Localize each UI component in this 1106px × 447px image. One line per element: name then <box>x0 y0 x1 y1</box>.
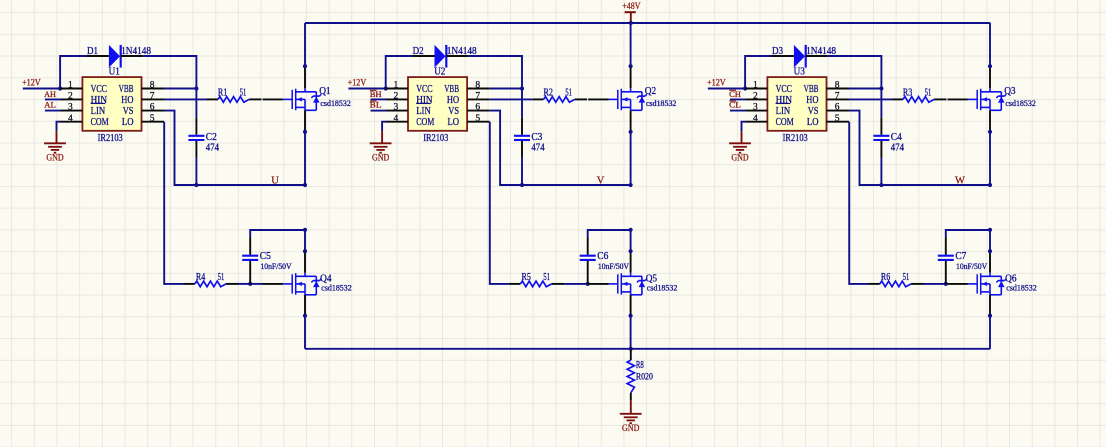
wire LO to low-side resistor <box>164 122 183 284</box>
svg-text:IR2103: IR2103 <box>783 133 808 144</box>
diode D1 cathode pin <box>121 55 143 57</box>
node VBB junction <box>194 86 198 90</box>
svg-text:HO: HO <box>447 95 459 106</box>
pin 7 (right) of U1 <box>142 98 165 100</box>
ground GND (shunt) <box>620 414 642 434</box>
svg-text:10nF/50V: 10nF/50V <box>260 262 291 271</box>
svg-text:LO: LO <box>807 117 819 128</box>
op-amp/driver IC U2 IR2103 <box>408 77 467 131</box>
wire net stub BH <box>371 98 387 100</box>
pin 3 (left) of U2 <box>386 110 408 112</box>
wire Q6 source to bottom rail <box>989 316 991 349</box>
wire cathode to VBB node <box>828 56 882 89</box>
wire up to diode D2 anode <box>386 56 412 89</box>
svg-text:5: 5 <box>150 114 155 124</box>
svg-text:4: 4 <box>394 114 399 124</box>
svg-text:Q3: Q3 <box>1004 86 1015 97</box>
wire gate node to gate pin <box>587 283 589 285</box>
diode D2 cathode pin <box>446 55 468 57</box>
svg-text:R1: R1 <box>218 88 227 99</box>
pin 5 (right) of U2 <box>467 121 490 123</box>
svg-text:R020: R020 <box>636 372 653 382</box>
node +48V junction <box>629 21 633 25</box>
node drain junction Q4 <box>303 249 307 253</box>
capacitor C5 <box>242 256 258 260</box>
svg-text:+12V: +12V <box>348 79 367 89</box>
overline for LIN (active low) <box>776 103 791 105</box>
wire gate node to gate pin <box>250 283 262 285</box>
node phase rail junction <box>988 183 992 187</box>
resistor R6 left pin <box>869 283 880 285</box>
svg-text:8: 8 <box>475 81 480 91</box>
pin 6 (right) of U3 <box>827 110 850 112</box>
node pin1 junction <box>743 86 747 90</box>
svg-text:51: 51 <box>565 88 572 99</box>
svg-text:csd18532: csd18532 <box>1006 284 1036 293</box>
capacitor C6 <box>580 256 596 260</box>
capacitor C4 bottom pin <box>880 141 882 158</box>
Q5 drain pin <box>630 251 632 273</box>
resistor R4 left pin <box>184 283 195 285</box>
overline of net BH <box>370 89 377 91</box>
node source junction Q4 <box>303 314 307 318</box>
svg-text:U1: U1 <box>109 67 120 78</box>
node source junction Q5 <box>629 314 633 318</box>
wire cap to mid rail <box>880 158 882 185</box>
svg-text:csd18532: csd18532 <box>320 99 350 108</box>
wire +12V to pin1 <box>708 88 745 90</box>
svg-text:VCC: VCC <box>776 84 793 95</box>
resistor R8 bottom pin <box>630 393 632 401</box>
pin 5 (right) of U1 <box>142 121 165 123</box>
pin 1 (left) of U3 <box>745 88 767 90</box>
svg-text:GND: GND <box>731 154 748 164</box>
capacitor C7 <box>938 256 954 260</box>
resistor R2 left pin <box>533 98 544 100</box>
resistor R3 left pin <box>892 98 903 100</box>
pin 1 (left) of U2 <box>386 88 408 90</box>
wire resistor to gate node <box>564 283 588 285</box>
svg-text:51: 51 <box>903 272 910 283</box>
wire +12V to pin1 <box>348 88 385 90</box>
pin 2 (left) of U3 <box>745 98 767 100</box>
svg-text:D2: D2 <box>413 46 424 57</box>
Q5 source pin <box>630 295 632 317</box>
svg-text:GND: GND <box>372 154 389 164</box>
Q1 source pin <box>304 110 306 132</box>
Q3 gate pin <box>948 98 968 100</box>
svg-text:csd18532: csd18532 <box>1005 99 1035 108</box>
Q4 source pin <box>304 295 306 317</box>
pin 7 (right) of U3 <box>827 98 850 100</box>
transistor Q2 <box>609 88 647 110</box>
wire VBB <box>164 88 196 90</box>
diode D1 <box>109 45 121 68</box>
wire cap to mid rail <box>521 158 523 185</box>
pin 4 (left) of U1 <box>60 121 82 123</box>
svg-text:5: 5 <box>835 114 840 124</box>
capacitor C6 bottom pin <box>587 261 589 284</box>
wire COM to ground <box>382 122 386 132</box>
svg-text:VBB: VBB <box>119 84 134 95</box>
svg-text:R4: R4 <box>196 272 205 283</box>
svg-text:VCC: VCC <box>91 84 108 95</box>
ground GND (phase A) <box>44 143 66 163</box>
wire VBB <box>490 88 522 90</box>
diode D3 anode pin <box>772 55 794 57</box>
svg-text:51: 51 <box>218 272 225 283</box>
svg-text:C6: C6 <box>597 251 608 262</box>
Q3 source pin <box>989 110 991 132</box>
node drain junction Q5 <box>629 249 633 253</box>
wire top rail to Q1 drain <box>304 23 306 66</box>
svg-text:GND: GND <box>622 424 639 434</box>
resistor R5 body <box>520 281 551 287</box>
svg-text:U2: U2 <box>434 67 445 78</box>
pin 2 (left) of U2 <box>386 98 408 100</box>
pin 1 (left) of U1 <box>60 88 82 90</box>
svg-text:VS: VS <box>448 106 459 117</box>
node cap top junction <box>303 228 307 232</box>
wire VS to phase rail <box>490 111 631 185</box>
svg-text:U3: U3 <box>794 67 805 78</box>
pin 7 (right) of U2 <box>467 98 490 100</box>
resistor R5 left pin <box>509 283 520 285</box>
wire R8 to ground stem <box>630 401 632 414</box>
node source junction Q3 <box>988 130 992 134</box>
capacitor C6 top pin <box>587 238 589 255</box>
wire cap C7 top elbow <box>946 230 990 238</box>
transistor Q3 <box>968 88 1006 110</box>
transistor Q1 <box>283 88 321 110</box>
node cap top junction <box>629 228 633 232</box>
pin 3 (left) of U1 <box>60 110 82 112</box>
capacitor C3 bottom pin <box>521 141 523 158</box>
wire mid to Q6 drain <box>989 230 991 251</box>
diode D2 anode pin <box>412 55 434 57</box>
svg-text:C5: C5 <box>260 251 271 262</box>
svg-text:HO: HO <box>806 95 818 106</box>
pin 3 (left) of U3 <box>745 110 767 112</box>
resistor R4 right pin <box>226 283 238 285</box>
svg-text:+12V: +12V <box>707 79 726 89</box>
wire cathode to VBB node <box>468 56 522 89</box>
wire VBB <box>849 88 881 90</box>
wire HO to gate resistor <box>164 98 207 100</box>
svg-text:3: 3 <box>68 103 73 113</box>
svg-text:LO: LO <box>122 117 134 128</box>
wire net stub AH <box>45 98 61 100</box>
op-amp/driver IC U1 IR2103 <box>82 77 141 131</box>
svg-text:LIN: LIN <box>416 106 431 117</box>
diode D1 anode pin <box>87 55 109 57</box>
svg-text:2: 2 <box>68 92 73 102</box>
svg-text:6: 6 <box>835 103 840 113</box>
node drain junction Q2 <box>629 64 633 68</box>
pin 5 (right) of U3 <box>827 121 850 123</box>
resistor R6 right pin <box>911 283 923 285</box>
svg-text:10nF/50V: 10nF/50V <box>598 262 629 271</box>
svg-text:COM: COM <box>91 117 109 128</box>
resistor R1 right pin <box>249 98 261 100</box>
svg-text:HIN: HIN <box>776 95 792 106</box>
pin 4 (left) of U3 <box>745 121 767 123</box>
ground GND (phase B) <box>370 143 392 163</box>
wire VS to phase rail <box>164 111 305 185</box>
svg-text:LIN: LIN <box>776 106 791 117</box>
wire Q2 source to mid rail <box>630 132 632 185</box>
Q6 drain pin <box>989 251 991 273</box>
svg-text:R3: R3 <box>903 88 912 99</box>
capacitor C5 bottom pin <box>249 261 251 284</box>
svg-text:+12V: +12V <box>22 79 41 89</box>
svg-text:VS: VS <box>123 106 134 117</box>
capacitor C2 <box>188 136 204 140</box>
transistor Q5 <box>609 273 647 295</box>
Q2 drain pin <box>630 66 632 88</box>
svg-text:IR2103: IR2103 <box>98 133 123 144</box>
Q6 gate pin <box>948 283 968 285</box>
svg-text:HIN: HIN <box>91 95 107 106</box>
node low-side gate junction <box>248 282 252 286</box>
wire top rail to Q2 drain <box>630 23 632 66</box>
diode D2 <box>435 45 447 68</box>
Q5 gate pin <box>588 283 608 285</box>
Q2 gate pin <box>588 98 608 100</box>
wire top +48V rail <box>305 22 990 24</box>
node drain junction Q6 <box>988 249 992 253</box>
svg-text:474: 474 <box>206 142 219 153</box>
svg-text:VBB: VBB <box>444 84 459 95</box>
svg-text:VS: VS <box>808 106 819 117</box>
capacitor C4 top pin <box>880 118 882 135</box>
capacitor C3 <box>514 136 530 140</box>
resistor R6 body <box>880 281 911 287</box>
wire Q1 source to mid rail <box>304 132 306 185</box>
svg-text:8: 8 <box>835 81 840 91</box>
wire up to diode D3 anode <box>745 56 771 89</box>
wire VBB node down <box>521 89 523 118</box>
svg-text:51: 51 <box>240 88 247 99</box>
capacitor C7 top pin <box>945 238 947 255</box>
node drain junction Q3 <box>988 64 992 68</box>
op-amp/driver IC U3 IR2103 <box>767 77 826 131</box>
node cap mid-rail junction <box>879 183 883 187</box>
pin 8 (right) of U3 <box>827 88 850 90</box>
pin 6 (right) of U2 <box>467 110 490 112</box>
node low-side gate junction <box>944 282 948 286</box>
wire cap to mid rail <box>195 158 197 185</box>
wire mid to Q4 drain <box>304 230 306 251</box>
wire +12V to pin1 <box>23 88 60 90</box>
wire LO to low-side resistor <box>490 122 509 284</box>
wire resistor to gate node <box>924 283 946 285</box>
pin 6 (right) of U1 <box>142 110 165 112</box>
svg-text:1: 1 <box>753 81 758 91</box>
overline for LIN (active low) <box>91 103 106 105</box>
capacitor C2 top pin <box>195 118 197 135</box>
node phase rail junction <box>303 183 307 187</box>
transistor Q6 <box>968 273 1006 295</box>
svg-text:R6: R6 <box>881 272 890 283</box>
resistor R8 body <box>627 360 634 393</box>
overline for LIN (active low) <box>416 103 431 105</box>
svg-text:D1: D1 <box>87 46 98 57</box>
node source junction Q1 <box>303 130 307 134</box>
node low-side gate junction <box>586 282 590 286</box>
resistor R1 body <box>218 97 249 103</box>
svg-text:R8: R8 <box>636 360 644 371</box>
svg-text:8: 8 <box>150 81 155 91</box>
overline of net CL <box>729 100 736 102</box>
wire resistor to gate node <box>239 283 251 285</box>
svg-text:AH: AH <box>44 89 56 99</box>
wire Q3 source to mid rail <box>989 132 991 185</box>
node VBB junction <box>520 86 524 90</box>
svg-text:10nF/50V: 10nF/50V <box>956 262 987 271</box>
svg-text:D3: D3 <box>772 46 783 57</box>
wire Q4 source to bottom rail <box>304 316 306 349</box>
svg-text:3: 3 <box>394 103 399 113</box>
svg-text:COM: COM <box>416 117 434 128</box>
node pin1 junction <box>384 86 388 90</box>
svg-text:7: 7 <box>150 92 155 102</box>
wire HO to gate resistor <box>490 98 533 100</box>
Q3 drain pin <box>989 66 991 88</box>
Q6 source pin <box>989 295 991 317</box>
node cap top junction <box>988 228 992 232</box>
wire COM to ground <box>742 122 746 132</box>
wire up to diode D1 anode <box>60 56 86 89</box>
wire HO to gate resistor <box>849 98 892 100</box>
svg-text:csd18532: csd18532 <box>321 284 351 293</box>
node source junction Q2 <box>629 130 633 134</box>
wire net stub CL <box>730 110 746 112</box>
svg-text:csd18532: csd18532 <box>647 284 677 293</box>
svg-text:COM: COM <box>776 117 794 128</box>
Q1 gate pin <box>263 98 283 100</box>
capacitor C5 top pin <box>249 238 251 255</box>
svg-text:7: 7 <box>475 92 480 102</box>
svg-text:51: 51 <box>543 272 550 283</box>
resistor R3 right pin <box>934 98 946 100</box>
svg-text:LO: LO <box>448 117 460 128</box>
svg-text:HIN: HIN <box>416 95 432 106</box>
Q4 gate pin <box>263 283 283 285</box>
svg-text:474: 474 <box>531 142 544 153</box>
svg-text:W: W <box>955 175 965 186</box>
wire COM to ground <box>57 122 61 132</box>
resistor R2 body <box>544 97 575 103</box>
Q4 drain pin <box>304 251 306 273</box>
wire Q5 source to bottom rail <box>630 316 632 349</box>
svg-text:7: 7 <box>835 92 840 102</box>
pin 8 (right) of U2 <box>467 88 490 90</box>
svg-text:474: 474 <box>891 142 904 153</box>
wire net stub BL <box>371 110 387 112</box>
svg-text:2: 2 <box>753 92 758 102</box>
wire ground stem <box>56 131 58 143</box>
overline of net CH <box>729 89 736 91</box>
svg-text:R2: R2 <box>544 88 553 99</box>
svg-text:LIN: LIN <box>91 106 106 117</box>
capacitor C2 bottom pin <box>195 141 197 158</box>
node VBB junction <box>879 86 883 90</box>
ground GND (phase C) <box>729 143 751 163</box>
node cap mid-rail junction <box>194 183 198 187</box>
resistor R1 left pin <box>207 98 218 100</box>
svg-text:HO: HO <box>121 95 133 106</box>
capacitor C3 top pin <box>521 118 523 135</box>
resistor R5 right pin <box>552 283 564 285</box>
node pin1 junction <box>58 86 62 90</box>
wire net stub CH <box>730 98 746 100</box>
svg-text:Q1: Q1 <box>319 86 330 97</box>
svg-text:VCC: VCC <box>416 84 433 95</box>
resistor R2 right pin <box>575 98 587 100</box>
pin 4 (left) of U2 <box>386 121 408 123</box>
diode D3 <box>794 45 806 68</box>
pin 2 (left) of U1 <box>60 98 82 100</box>
capacitor C4 <box>873 136 889 140</box>
svg-text:csd18532: csd18532 <box>646 99 676 108</box>
svg-text:VBB: VBB <box>804 84 819 95</box>
svg-text:4: 4 <box>753 114 758 124</box>
svg-text:IR2103: IR2103 <box>423 133 448 144</box>
svg-text:5: 5 <box>475 114 480 124</box>
resistor R8 top pin <box>630 349 632 360</box>
resistor R4 body <box>195 281 226 287</box>
svg-text:R5: R5 <box>522 272 531 283</box>
Q1 drain pin <box>304 66 306 88</box>
wire bottom rail <box>305 348 990 350</box>
power port +48V <box>622 2 640 23</box>
overline of net BL <box>370 100 377 102</box>
svg-text:GND: GND <box>46 154 63 164</box>
node phase rail junction <box>629 183 633 187</box>
svg-text:Q2: Q2 <box>645 86 656 97</box>
wire LO to low-side resistor <box>849 122 868 284</box>
svg-text:+48V: +48V <box>622 2 640 12</box>
diode D3 cathode pin <box>806 55 828 57</box>
wire net stub AL <box>45 110 61 112</box>
wire mid to Q5 drain <box>630 230 632 251</box>
pin 8 (right) of U1 <box>142 88 165 90</box>
svg-text:C7: C7 <box>955 251 966 262</box>
transistor Q4 <box>283 273 321 295</box>
svg-text:6: 6 <box>150 103 155 113</box>
svg-text:1: 1 <box>394 81 399 91</box>
capacitor C7 bottom pin <box>945 261 947 284</box>
wire VS to phase rail <box>849 111 990 185</box>
wire ground stem <box>381 131 383 143</box>
wire VBB node down <box>195 89 197 118</box>
wire cap C6 top elbow <box>588 230 631 238</box>
wire top rail to Q3 drain <box>989 23 991 66</box>
node bottom rail junction <box>629 347 633 351</box>
wire gate node to gate pin <box>946 283 948 285</box>
svg-text:2: 2 <box>394 92 399 102</box>
svg-text:51: 51 <box>925 88 932 99</box>
svg-text:6: 6 <box>475 103 480 113</box>
wire VBB node down <box>880 89 882 118</box>
svg-text:4: 4 <box>68 114 73 124</box>
svg-text:3: 3 <box>753 103 758 113</box>
node drain junction Q1 <box>303 64 307 68</box>
svg-text:AL: AL <box>44 100 56 110</box>
node source junction Q6 <box>988 314 992 318</box>
resistor R3 body <box>903 97 934 103</box>
